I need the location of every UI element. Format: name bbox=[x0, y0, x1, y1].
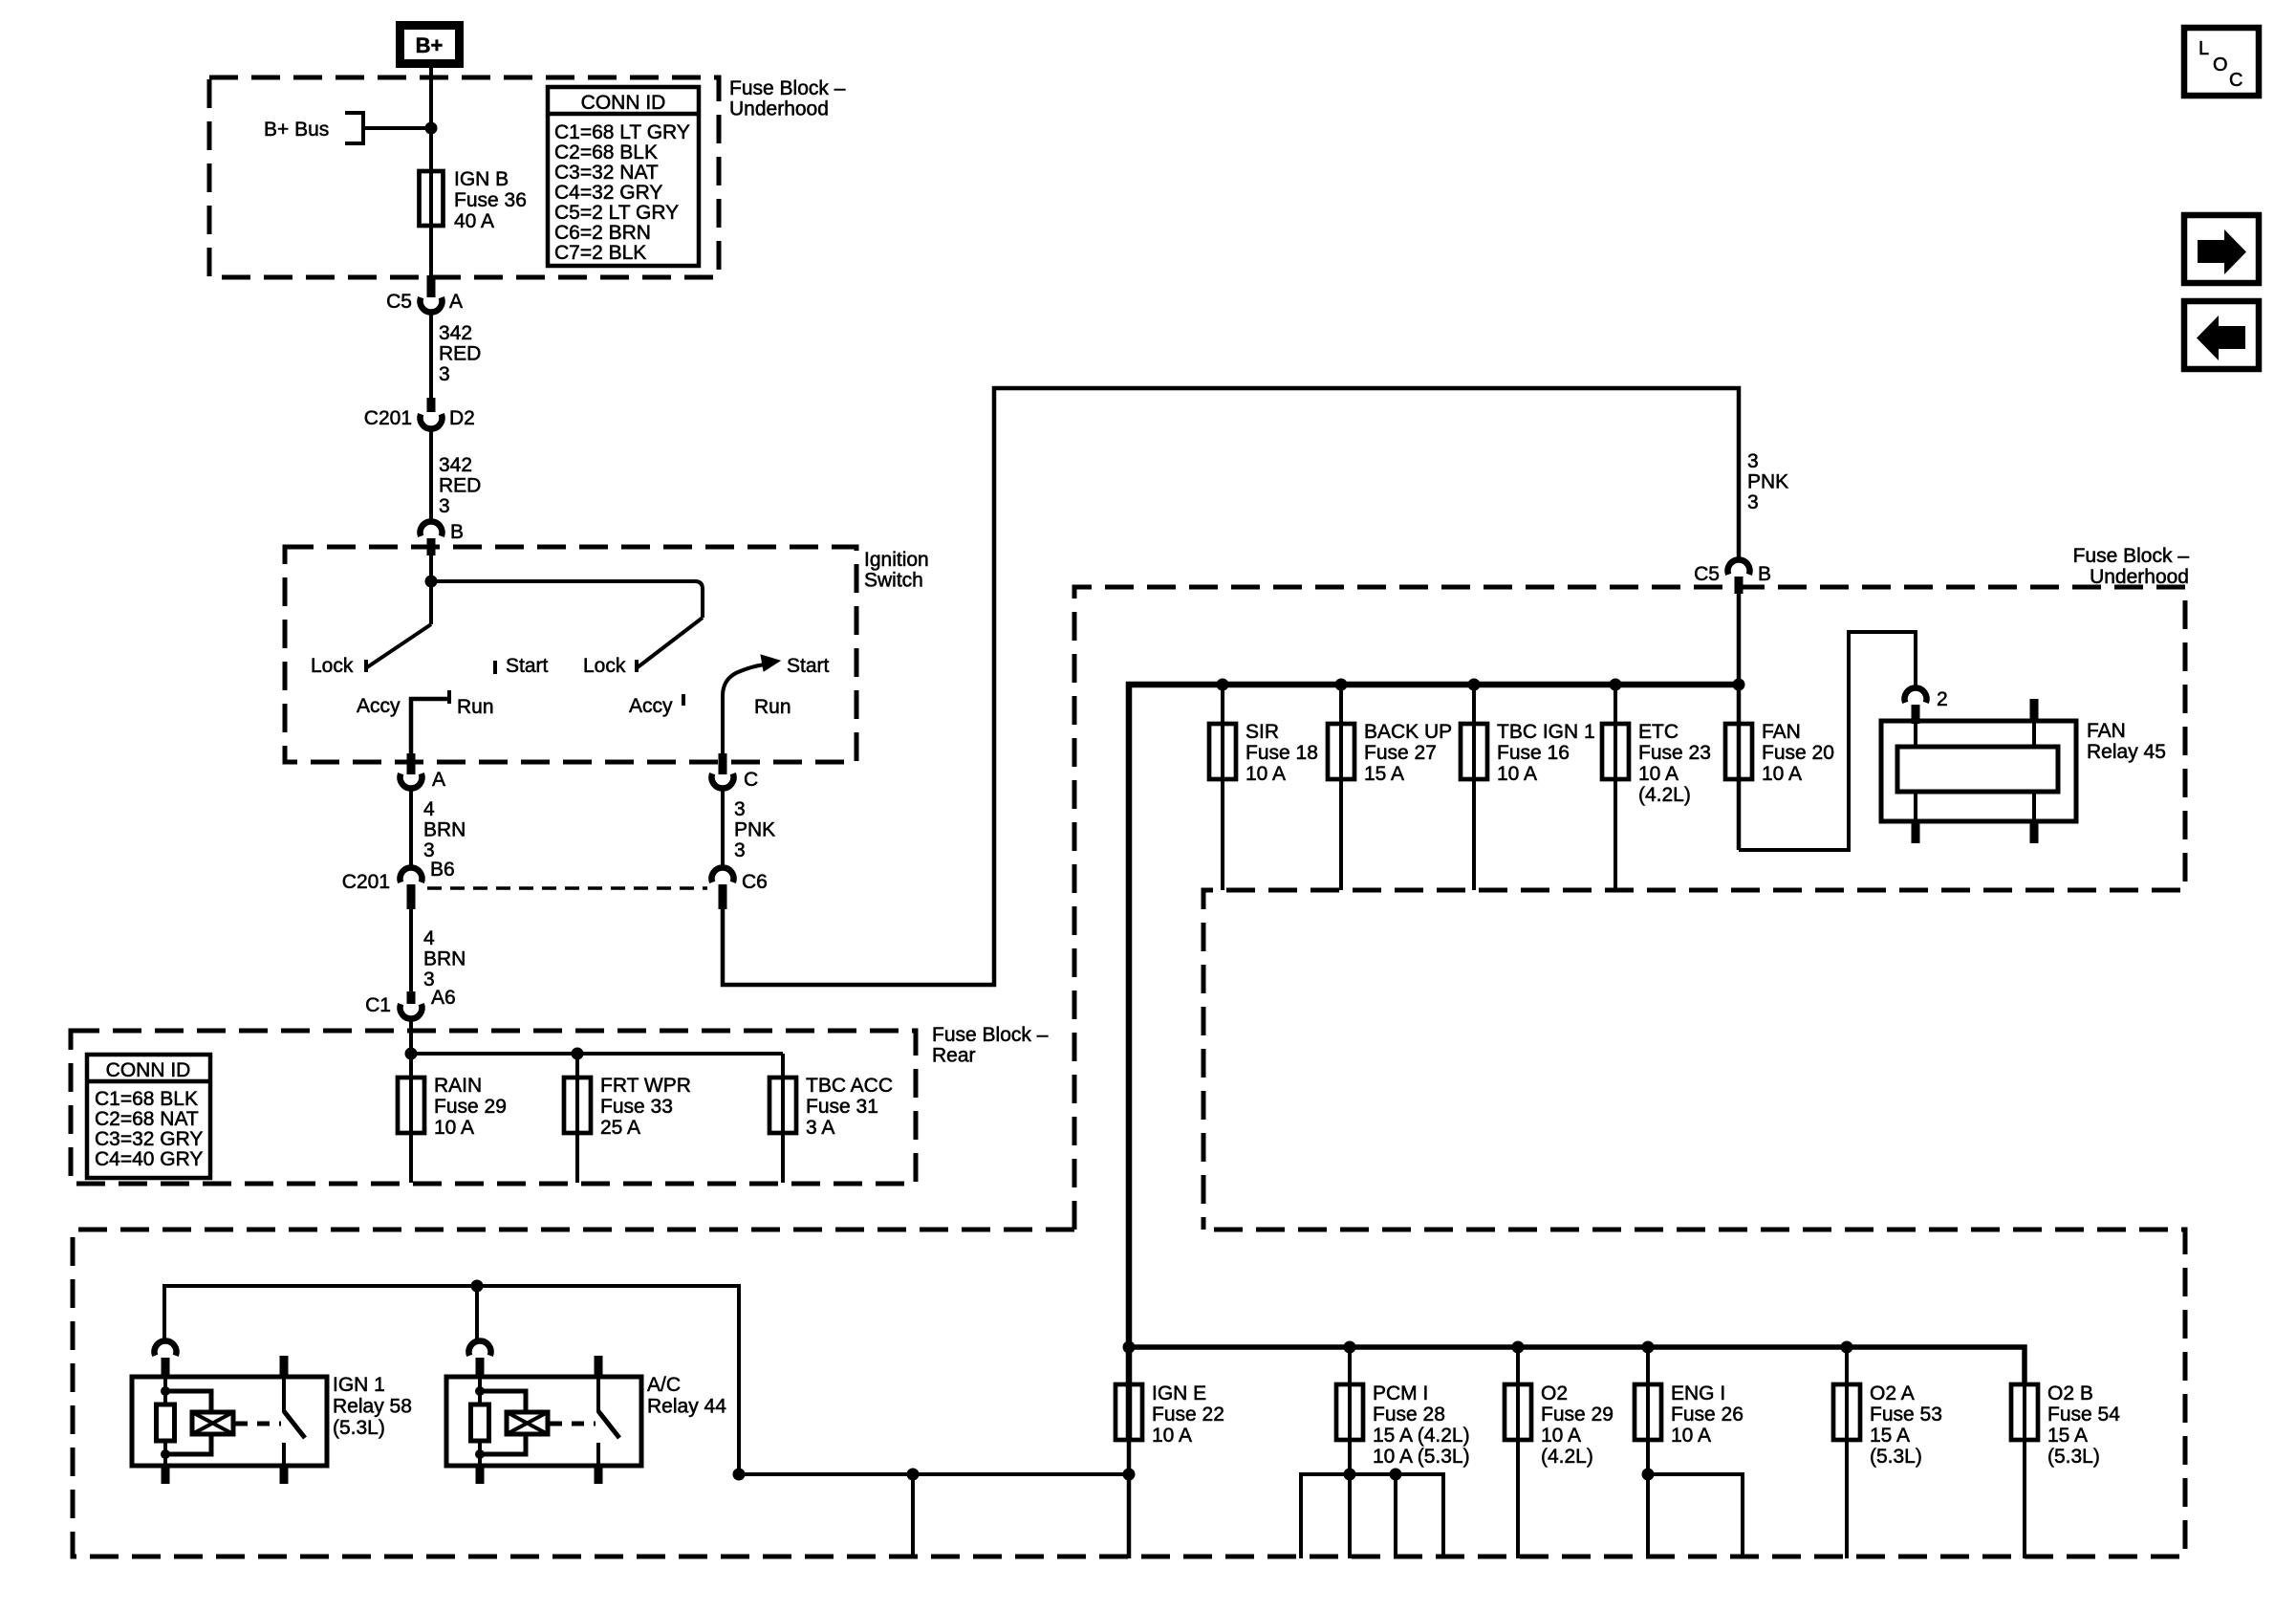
svg-text:4: 4 bbox=[423, 798, 435, 820]
svg-text:Fuse 29: Fuse 29 bbox=[434, 1096, 507, 1118]
svg-text:FAN: FAN bbox=[2087, 720, 2126, 742]
wire to fuse O2 bbox=[1516, 1347, 1520, 1558]
relay FAN Relay 45 body bbox=[1881, 721, 2076, 821]
connector C201 terminal B6 bbox=[400, 867, 422, 882]
ignition switch pole 1 blade (Lock position) bbox=[429, 581, 433, 624]
svg-text:15 A (4.2L): 15 A (4.2L) bbox=[1373, 1425, 1470, 1447]
wire A/C relay tap down bbox=[475, 1286, 479, 1339]
contact tick Start (pole 1) bbox=[493, 661, 497, 674]
relay A/C coil circuit bbox=[478, 1377, 482, 1391]
connector terminal C (ignition switch) bbox=[719, 753, 727, 774]
fuse PCM I Fuse 28 bbox=[1336, 1384, 1363, 1440]
svg-text:C1=68 LT GRY: C1=68 LT GRY bbox=[554, 121, 690, 143]
fuse IGN B Fuse 36 40A bbox=[420, 171, 444, 226]
svg-text:Lock: Lock bbox=[583, 655, 626, 677]
node junction RAIN fuse tap bbox=[405, 1048, 418, 1060]
svg-text:CONN ID: CONN ID bbox=[106, 1059, 191, 1081]
svg-text:3 A: 3 A bbox=[806, 1117, 834, 1139]
svg-text:Fuse 16: Fuse 16 bbox=[1497, 742, 1570, 764]
wire connector B to switch junction bbox=[429, 553, 433, 585]
svg-text:PNK: PNK bbox=[734, 819, 775, 841]
svg-text:(5.3L): (5.3L) bbox=[1870, 1446, 1922, 1468]
wire 4 BRN 3 (upper) bbox=[409, 790, 413, 868]
svg-text:342: 342 bbox=[439, 454, 472, 476]
svg-text:CONN ID: CONN ID bbox=[581, 92, 666, 114]
svg-text:10 A: 10 A bbox=[434, 1117, 474, 1139]
svg-text:B6: B6 bbox=[430, 859, 455, 881]
svg-text:342: 342 bbox=[439, 322, 472, 344]
svg-text:C: C bbox=[744, 769, 758, 791]
relay IGN 1 coil-to-contact dashed link bbox=[235, 1422, 281, 1426]
svg-text:RAIN: RAIN bbox=[434, 1075, 482, 1097]
ignition switch pole 2 blade (Lock position) bbox=[638, 618, 703, 667]
svg-text:10 A: 10 A bbox=[1152, 1425, 1192, 1447]
node junction B+ bus bbox=[425, 122, 438, 135]
svg-text:Relay 44: Relay 44 bbox=[647, 1396, 726, 1418]
svg-text:C3=32 GRY: C3=32 GRY bbox=[95, 1128, 203, 1150]
LOC reference icon bbox=[2184, 28, 2259, 96]
svg-text:Fuse 31: Fuse 31 bbox=[806, 1096, 878, 1118]
node ignition switch feed junction bbox=[425, 576, 438, 588]
fuse block underhood (right) boundary bbox=[1074, 587, 2185, 1230]
node junction ENG I tap bbox=[1642, 1341, 1655, 1354]
wire to fuse O2 A bbox=[1845, 1347, 1849, 1558]
wire FAN fuse to relay 45 coil bbox=[1739, 632, 1916, 850]
fuse BACK UP Fuse 27 15A bbox=[1328, 724, 1354, 779]
node junction FAN tap bbox=[1733, 679, 1745, 691]
svg-text:(4.2L): (4.2L) bbox=[1541, 1446, 1593, 1468]
wire 3 PNK 3 from terminal C bbox=[721, 790, 725, 868]
fuse O2 Fuse 29 10A bbox=[1505, 1384, 1531, 1440]
wire below fuse O2 B bbox=[2023, 1347, 2026, 1558]
connector B into ignition switch bbox=[421, 521, 443, 535]
svg-text:4: 4 bbox=[423, 927, 435, 949]
node junction FRT WPR fuse tap bbox=[572, 1048, 584, 1060]
svg-text:IGN E: IGN E bbox=[1152, 1382, 1206, 1404]
svg-text:O2 A: O2 A bbox=[1870, 1382, 1915, 1404]
node junction SIR tap bbox=[1217, 679, 1229, 691]
wire to fuse FRT WPR bbox=[575, 1054, 579, 1183]
svg-text:O: O bbox=[2213, 54, 2228, 76]
svg-text:Underhood: Underhood bbox=[2090, 566, 2189, 588]
svg-text:PCM I: PCM I bbox=[1373, 1382, 1428, 1404]
svg-text:B+: B+ bbox=[416, 33, 444, 57]
svg-text:3: 3 bbox=[439, 363, 450, 385]
connector C5 terminal B (right fuse block) bbox=[1728, 559, 1750, 574]
svg-text:BRN: BRN bbox=[423, 819, 466, 841]
fuse block underhood (bottom) boundary bbox=[73, 1230, 2185, 1557]
ignition switch boundary bbox=[285, 547, 856, 762]
forward arrow icon bbox=[2184, 215, 2259, 283]
svg-text:C5=2 LT GRY: C5=2 LT GRY bbox=[554, 202, 679, 224]
svg-text:25 A: 25 A bbox=[600, 1117, 640, 1139]
svg-text:C1: C1 bbox=[365, 994, 391, 1016]
svg-text:Fuse 26: Fuse 26 bbox=[1671, 1404, 1744, 1426]
fuse TBC ACC Fuse 31 3A bbox=[769, 1078, 796, 1133]
node junction TBC IGN 1 tap bbox=[1468, 679, 1481, 691]
connector C201 terminal C6 bbox=[711, 867, 733, 882]
fuse O2 B Fuse 54 15A bbox=[2011, 1384, 2038, 1440]
svg-text:C201: C201 bbox=[342, 871, 390, 893]
svg-text:Accy: Accy bbox=[357, 695, 401, 717]
svg-text:Fuse 53: Fuse 53 bbox=[1870, 1404, 1942, 1426]
svg-text:C2=68 BLK: C2=68 BLK bbox=[554, 142, 658, 163]
svg-text:C2=68 NAT: C2=68 NAT bbox=[95, 1108, 199, 1130]
back arrow icon bbox=[2184, 301, 2259, 369]
svg-text:BRN: BRN bbox=[423, 948, 466, 970]
svg-text:Start: Start bbox=[506, 655, 549, 677]
node junction BACK UP tap bbox=[1335, 679, 1348, 691]
FAN relay pin bottom-left bbox=[1914, 792, 1917, 821]
wire heavy bus right fuse block bbox=[1129, 685, 1739, 1440]
fuse ETC Fuse 23 10A bbox=[1602, 724, 1629, 779]
wire to fuse TBC ACC bbox=[781, 1054, 785, 1183]
fuse SIR Fuse 18 10A bbox=[1209, 724, 1236, 779]
svg-text:Start: Start bbox=[787, 655, 830, 677]
svg-text:3: 3 bbox=[1747, 450, 1759, 472]
svg-text:C3=32 NAT: C3=32 NAT bbox=[554, 162, 659, 184]
wire bottom distribution bus bbox=[1129, 1347, 2025, 1384]
svg-text:Fuse 23: Fuse 23 bbox=[1638, 742, 1711, 764]
svg-text:Run: Run bbox=[457, 696, 494, 718]
relay IGN 1 switch contact bbox=[280, 1356, 289, 1377]
wire 342 RED 3 (upper) bbox=[429, 314, 433, 398]
CONN ID table (rear) bbox=[87, 1055, 210, 1178]
node junction O2 A tap bbox=[1841, 1341, 1853, 1354]
svg-text:Fuse 28: Fuse 28 bbox=[1373, 1404, 1445, 1426]
svg-text:10 A: 10 A bbox=[1638, 763, 1679, 785]
svg-text:A: A bbox=[432, 769, 445, 791]
ENG I output bracket wires bbox=[1648, 1474, 1743, 1558]
svg-text:B: B bbox=[450, 521, 464, 543]
svg-text:(5.3L): (5.3L) bbox=[333, 1417, 385, 1439]
connector coil terminal (IGN 1 relay) bbox=[155, 1340, 177, 1355]
svg-text:Fuse Block –: Fuse Block – bbox=[729, 77, 846, 99]
svg-text:10 A: 10 A bbox=[1762, 763, 1802, 785]
wire stub to box edge bbox=[911, 1474, 915, 1558]
svg-text:(4.2L): (4.2L) bbox=[1638, 784, 1691, 806]
svg-text:Fuse Block –: Fuse Block – bbox=[2073, 545, 2190, 567]
svg-text:Relay 45: Relay 45 bbox=[2087, 741, 2166, 763]
svg-text:RED: RED bbox=[439, 343, 481, 365]
PCM I output bracket wires bbox=[1301, 1474, 1443, 1558]
svg-text:15 A: 15 A bbox=[1870, 1425, 1910, 1447]
svg-text:10 A: 10 A bbox=[1497, 763, 1537, 785]
svg-text:10 A: 10 A bbox=[1245, 763, 1286, 785]
svg-text:C6: C6 bbox=[742, 871, 768, 893]
svg-text:2: 2 bbox=[1937, 688, 1948, 710]
svg-text:A/C: A/C bbox=[647, 1374, 681, 1396]
FAN relay pin bottom-right bbox=[2032, 792, 2036, 821]
connector C201 terminal D2 bbox=[427, 398, 436, 412]
svg-text:C1=68 BLK: C1=68 BLK bbox=[95, 1088, 198, 1110]
svg-text:C7=2 BLK: C7=2 BLK bbox=[554, 242, 646, 264]
FAN relay pin top-left bbox=[1914, 724, 1917, 747]
svg-text:Ignition: Ignition bbox=[864, 549, 929, 571]
svg-text:TBC IGN 1: TBC IGN 1 bbox=[1497, 721, 1595, 743]
svg-text:B: B bbox=[1758, 563, 1771, 585]
svg-text:Fuse 54: Fuse 54 bbox=[2047, 1404, 2120, 1426]
node junction IGN E wire bbox=[1123, 1469, 1136, 1481]
svg-text:3: 3 bbox=[734, 839, 746, 861]
svg-text:Lock: Lock bbox=[311, 655, 354, 677]
wire to fuse ETC bbox=[1614, 685, 1617, 890]
connector C5 terminal A bbox=[427, 275, 436, 297]
wire ignition feed to second pole bbox=[431, 581, 703, 618]
fuse block rear boundary bbox=[71, 1031, 916, 1184]
svg-text:C: C bbox=[2229, 70, 2242, 91]
wire A6 into rear fuse block bbox=[409, 1019, 413, 1054]
node junction ETC tap bbox=[1610, 679, 1622, 691]
svg-text:10 A: 10 A bbox=[1541, 1425, 1581, 1447]
wire B+ feed down to connector C5 bbox=[429, 63, 433, 277]
svg-text:Accy: Accy bbox=[629, 695, 673, 717]
svg-text:TBC ACC: TBC ACC bbox=[806, 1075, 893, 1097]
svg-text:Run: Run bbox=[754, 696, 791, 718]
svg-text:PNK: PNK bbox=[1747, 471, 1788, 493]
wire to fuse RAIN bbox=[409, 1054, 413, 1183]
CONN ID table (underhood) bbox=[548, 87, 699, 266]
svg-text:3: 3 bbox=[439, 495, 450, 517]
svg-text:Fuse Block –: Fuse Block – bbox=[932, 1024, 1049, 1046]
svg-text:Switch: Switch bbox=[864, 570, 923, 592]
wire to fuse SIR bbox=[1221, 685, 1224, 890]
svg-text:ETC: ETC bbox=[1638, 721, 1679, 743]
svg-text:B+ Bus: B+ Bus bbox=[264, 119, 329, 141]
fuse IGN E Fuse 22 10A bbox=[1116, 1384, 1142, 1440]
relay A/C switch contact bbox=[595, 1356, 603, 1377]
wire to fuse PCM I bbox=[1348, 1347, 1352, 1558]
wire to fuse ENG I bbox=[1646, 1347, 1650, 1558]
wire connector B to bus bbox=[1737, 591, 1742, 850]
wire below fuse IGN E bbox=[1127, 1440, 1132, 1558]
connector C1 terminal A6 bbox=[407, 991, 416, 1004]
svg-text:(5.3L): (5.3L) bbox=[2047, 1446, 2100, 1468]
contact tick Accy (pole 2) bbox=[682, 694, 685, 706]
fuse block underhood (top-left) boundary bbox=[209, 77, 719, 277]
svg-text:IGN B: IGN B bbox=[454, 168, 509, 190]
wire 4 BRN 3 (lower) bbox=[409, 907, 413, 991]
svg-text:C6=2 BRN: C6=2 BRN bbox=[554, 222, 651, 244]
svg-text:BACK UP: BACK UP bbox=[1364, 721, 1452, 743]
wire 342 RED 3 (lower) bbox=[429, 430, 433, 522]
node junction stub tap bbox=[907, 1469, 920, 1481]
svg-text:Fuse 29: Fuse 29 bbox=[1541, 1404, 1614, 1426]
svg-text:Fuse 18: Fuse 18 bbox=[1245, 742, 1318, 764]
relay IGN 1 coil circuit bbox=[163, 1377, 167, 1391]
svg-text:10 A: 10 A bbox=[1671, 1425, 1711, 1447]
svg-text:15 A: 15 A bbox=[1364, 763, 1404, 785]
svg-text:C4=40 GRY: C4=40 GRY bbox=[95, 1148, 203, 1170]
svg-text:15 A: 15 A bbox=[2047, 1425, 2088, 1447]
fuse RAIN Fuse 29 10A bbox=[398, 1078, 424, 1133]
svg-text:3: 3 bbox=[734, 798, 746, 820]
wire to fuse TBC IGN 1 bbox=[1472, 685, 1476, 890]
svg-text:RED: RED bbox=[439, 475, 481, 497]
fuse O2 A Fuse 53 15A bbox=[1833, 1384, 1860, 1440]
svg-text:O2 B: O2 B bbox=[2047, 1382, 2093, 1404]
svg-text:O2: O2 bbox=[1541, 1382, 1568, 1404]
svg-text:D2: D2 bbox=[449, 407, 475, 429]
node junction A/C relay tap bbox=[471, 1280, 484, 1293]
connector C201 body (dashed link B6-C6) bbox=[427, 886, 707, 890]
pole 2 wiper arrow toward Start bbox=[723, 664, 765, 762]
svg-text:Fuse 36: Fuse 36 bbox=[454, 189, 527, 211]
relay A/C body bbox=[446, 1377, 641, 1466]
connector terminal A (ignition switch) bbox=[407, 753, 416, 774]
svg-text:L: L bbox=[2199, 38, 2209, 59]
wire C6 across to right fuse block bbox=[723, 388, 1739, 985]
relay IGN 1 body bbox=[132, 1377, 327, 1466]
svg-text:3: 3 bbox=[1747, 491, 1759, 513]
svg-text:Rear: Rear bbox=[932, 1045, 976, 1067]
svg-text:Relay 58: Relay 58 bbox=[333, 1396, 412, 1418]
FAN relay pin top-right stub bbox=[2030, 699, 2039, 722]
svg-text:A6: A6 bbox=[431, 987, 456, 1009]
fuse FAN Fuse 20 10A bbox=[1725, 724, 1752, 779]
svg-text:FRT WPR: FRT WPR bbox=[600, 1075, 691, 1097]
svg-text:C5: C5 bbox=[1694, 563, 1720, 585]
svg-text:Underhood: Underhood bbox=[729, 98, 829, 120]
svg-text:SIR: SIR bbox=[1245, 721, 1279, 743]
svg-text:Fuse 20: Fuse 20 bbox=[1762, 742, 1834, 764]
fuse ENG I Fuse 26 10A bbox=[1635, 1384, 1661, 1440]
svg-text:C5: C5 bbox=[386, 291, 412, 313]
B+ Bus tap bracket bbox=[345, 113, 363, 143]
svg-text:C4=32 GRY: C4=32 GRY bbox=[554, 182, 662, 204]
battery B+ power symbol bbox=[401, 26, 460, 64]
svg-text:C201: C201 bbox=[364, 407, 412, 429]
rear fuse block bus wire bbox=[411, 1052, 783, 1056]
node junction corner relay bus bbox=[733, 1469, 746, 1481]
svg-text:IGN 1: IGN 1 bbox=[333, 1374, 385, 1396]
svg-text:FAN: FAN bbox=[1762, 721, 1801, 743]
wire relay feed bus (bottom box) bbox=[164, 1286, 1129, 1474]
svg-text:Fuse 27: Fuse 27 bbox=[1364, 742, 1437, 764]
pole 1 wiper to Run contact bbox=[411, 699, 449, 762]
svg-text:A: A bbox=[449, 291, 463, 313]
wire B+ Bus to main feed bbox=[363, 126, 431, 130]
svg-text:10 A (5.3L): 10 A (5.3L) bbox=[1373, 1446, 1470, 1468]
fuse TBC IGN 1 Fuse 16 10A bbox=[1461, 724, 1487, 779]
node junction bottom bus bbox=[1123, 1341, 1136, 1354]
relay A/C coil-to-contact dashed link bbox=[550, 1422, 596, 1426]
node junction O2 tap bbox=[1512, 1341, 1525, 1354]
wire to fuse BACK UP bbox=[1339, 685, 1343, 890]
svg-text:Fuse 33: Fuse 33 bbox=[600, 1096, 673, 1118]
svg-text:ENG I: ENG I bbox=[1671, 1382, 1725, 1404]
node junction PCM I tap bbox=[1344, 1341, 1356, 1354]
fuse FRT WPR Fuse 33 25A bbox=[564, 1078, 591, 1133]
svg-text:40 A: 40 A bbox=[454, 210, 494, 232]
connector terminal 2 (FAN relay) bbox=[1905, 687, 1927, 702]
connector coil terminal (A/C relay) bbox=[468, 1340, 490, 1355]
svg-text:Fuse 22: Fuse 22 bbox=[1152, 1404, 1224, 1426]
